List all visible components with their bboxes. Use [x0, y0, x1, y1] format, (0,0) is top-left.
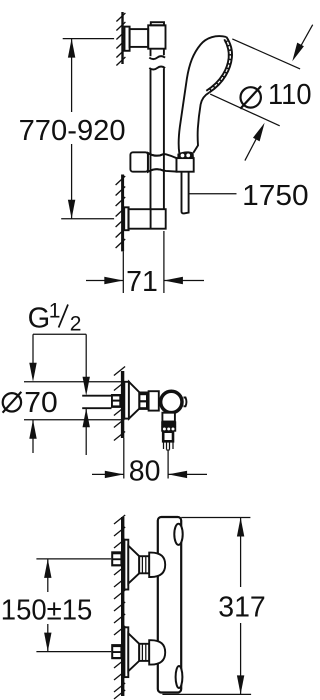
G1/2 leader lines with arrows	[29, 334, 90, 395]
top bracket escutcheon	[125, 27, 130, 51]
top escutcheon plate	[124, 540, 128, 590]
wall fig3	[114, 515, 125, 699]
outlet tube bold	[163, 432, 173, 442]
bottom bracket divider	[150, 209, 152, 229]
top escutcheon cone	[128, 546, 139, 584]
supply pipe fig2	[82, 396, 111, 409]
bottom boss half-round	[149, 640, 165, 664]
top bracket cap	[151, 22, 164, 25]
spray face outer edge	[209, 37, 232, 93]
bottom escutcheon cone	[128, 633, 139, 671]
outlet dark band	[161, 421, 176, 426]
holder right box	[177, 158, 194, 172]
outlet knurl band with dots	[161, 426, 176, 431]
hose	[182, 172, 189, 213]
dimension 770-920	[19, 39, 126, 219]
dimension diameter 110	[210, 25, 313, 161]
G1/2 pipe lower arrow	[83, 408, 90, 455]
collar fig2	[149, 391, 159, 410]
rail break	[149, 56, 165, 59]
top connection in-wall nut	[111, 551, 122, 566]
thermostat body	[158, 517, 181, 693]
dimension 150±15	[1, 559, 111, 652]
body top knob ellipse	[174, 524, 182, 545]
svg-text:70: 70	[24, 387, 58, 419]
top union nut	[139, 556, 149, 573]
wall fig2	[114, 367, 125, 479]
rail mid segment	[151, 68, 164, 209]
dimension 71	[86, 231, 204, 298]
top bracket arm	[130, 29, 149, 47]
leader 1750	[189, 180, 308, 212]
spray face inner edge	[206, 39, 229, 91]
dimension 80	[92, 451, 207, 488]
wall fig1 bottom	[116, 175, 126, 252]
svg-text:G: G	[28, 303, 51, 335]
dimension 317	[162, 518, 265, 695]
svg-text:317: 317	[218, 592, 266, 624]
union nut fig2	[139, 392, 149, 410]
spray face nozzle dots	[208, 41, 230, 91]
bottom connection in-wall nut	[111, 644, 122, 659]
bottom bracket body	[128, 209, 165, 229]
svg-text:2: 2	[70, 313, 82, 336]
hand shower handle right edge	[193, 93, 209, 153]
svg-text:1: 1	[49, 300, 61, 323]
holder slider block	[130, 152, 148, 171]
handle grip dark cap	[177, 151, 194, 158]
wall fig1 top	[116, 12, 125, 66]
outlet inner tip	[164, 441, 174, 450]
escutcheon cone fig2	[129, 382, 139, 419]
svg-text:71: 71	[126, 266, 158, 298]
top boss half-round	[149, 553, 165, 577]
bottom union nut	[139, 644, 149, 661]
dimension diameter 70	[3, 382, 125, 453]
hand shower outline (head + handle left)	[179, 36, 227, 153]
rail upper stub	[151, 49, 164, 57]
top bracket block	[148, 25, 165, 48]
outlet neck fig2	[162, 413, 175, 422]
svg-text:1750: 1750	[242, 180, 309, 212]
body bottom knob ellipse	[176, 666, 183, 688]
holder ball fig2	[161, 391, 182, 412]
svg-text:150±15: 150±15	[1, 595, 93, 627]
text G 1/2	[28, 300, 82, 336]
bottom bracket escutcheon	[124, 207, 128, 230]
svg-text:110: 110	[268, 79, 312, 111]
holder clip right fig2	[184, 398, 187, 407]
holder spool edge restrokes	[148, 153, 164, 172]
holder middle spool (waist)	[148, 153, 177, 172]
svg-text:80: 80	[129, 456, 161, 488]
supply nut behind wall	[111, 394, 121, 408]
svg-text:770-920: 770-920	[19, 115, 126, 147]
escutcheon plate fig2	[124, 382, 129, 419]
bottom escutcheon plate	[124, 627, 128, 677]
